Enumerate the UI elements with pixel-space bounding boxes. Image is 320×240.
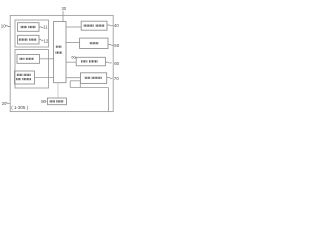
box A <box>18 23 40 32</box>
power box <box>48 98 67 105</box>
node 60 pre label <box>71 55 76 60</box>
group box lower (C+D) <box>15 50 49 89</box>
node 70 label <box>107 76 119 81</box>
box R3 <box>76 57 105 66</box>
outer system box <box>10 15 113 111</box>
wire C to controller <box>40 58 54 60</box>
box C <box>17 55 40 64</box>
node 40 label <box>107 23 119 28</box>
svg-text:11: 11 <box>43 24 48 29</box>
node 11 label <box>39 24 48 29</box>
svg-text:10: 10 <box>1 24 6 29</box>
svg-text:50: 50 <box>114 43 119 48</box>
box R2 <box>80 38 108 48</box>
group box upper (A+B) <box>15 20 49 47</box>
svg-text:20: 20 <box>2 101 7 106</box>
wire controller to R4 <box>66 77 81 79</box>
box B <box>18 35 40 44</box>
wire controller to R3 <box>66 61 76 63</box>
box D <box>15 71 35 84</box>
node 30 top label <box>62 6 67 21</box>
box R1 <box>81 21 107 30</box>
node 80 label <box>41 99 47 104</box>
svg-text:60: 60 <box>114 61 119 66</box>
wire controller to R1 <box>66 26 81 28</box>
svg-text:30: 30 <box>62 6 67 11</box>
power routing wire <box>70 81 108 112</box>
wire controller to power box <box>57 83 59 98</box>
svg-text:12: 12 <box>44 39 49 44</box>
node 12 label <box>39 39 49 44</box>
wire controller to R2 <box>66 42 80 44</box>
node 10 left label <box>1 24 10 29</box>
svg-text:40: 40 <box>114 23 119 28</box>
node 20 bottom-left label <box>2 101 10 106</box>
svg-text:70: 70 <box>114 76 119 81</box>
svg-text:( 1-305 ): ( 1-305 ) <box>11 105 28 110</box>
svg-text:80: 80 <box>41 99 46 104</box>
node 50 label <box>108 43 120 48</box>
controller box U1 <box>54 22 66 83</box>
box R4 <box>81 73 107 84</box>
node 60 label <box>106 61 120 66</box>
wire D to controller <box>35 77 54 79</box>
